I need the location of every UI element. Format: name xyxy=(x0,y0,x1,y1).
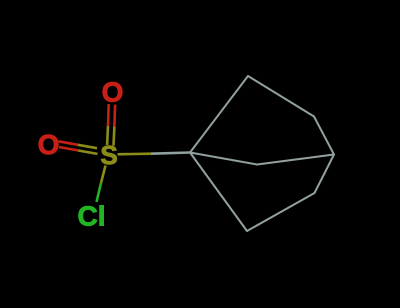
svg-text:O: O xyxy=(38,129,60,160)
svg-text:Cl: Cl xyxy=(78,201,106,232)
svg-text:O: O xyxy=(102,77,124,108)
svg-text:S: S xyxy=(100,140,117,170)
